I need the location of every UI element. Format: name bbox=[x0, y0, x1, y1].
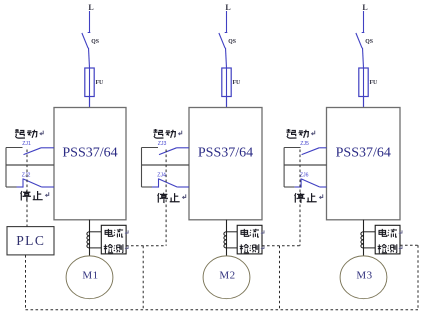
wire: common middle rail to U2 (column 2) bbox=[142, 164, 190, 166]
wire: U1 output to motor M1 bbox=[89, 220, 91, 256]
svg-text:PSS37/64: PSS37/64 bbox=[62, 146, 117, 161]
wire: U2 output to motor M2 bbox=[226, 220, 228, 256]
current detection box 电流检测 (column 2) bbox=[237, 225, 262, 254]
switch QS1 (knife switch blade) bbox=[82, 33, 90, 49]
svg-text:QS: QS bbox=[91, 39, 99, 45]
wire: stop contact lower lead (column 3) bbox=[284, 186, 295, 188]
soft starter U1 PSS37/64 (box) bbox=[54, 108, 126, 220]
current detection box 电流检测 (column 3) bbox=[375, 225, 400, 254]
svg-text:ZJ2: ZJ2 bbox=[22, 172, 31, 178]
dashed control link: column 3 contacts down bbox=[299, 150, 301, 246]
svg-text:ZJ1: ZJ1 bbox=[22, 141, 31, 147]
wire: fuse FU3 to soft starter U3 bbox=[363, 97, 365, 108]
label 电流 (current, column 3) bbox=[379, 229, 402, 238]
wire: U3 output to motor M3 bbox=[363, 220, 365, 256]
svg-text:ZJ4: ZJ4 bbox=[157, 172, 166, 178]
current transformer coil (column 1) bbox=[87, 232, 90, 248]
wire: start contact upper lead (column 2) bbox=[142, 147, 159, 149]
motor M2 (circle) bbox=[203, 256, 250, 299]
svg-text:FU: FU bbox=[370, 80, 379, 86]
fuse FU1 (rectangle with wire through) bbox=[85, 68, 94, 97]
svg-text:M2: M2 bbox=[219, 269, 235, 281]
svg-text:PSS37/64: PSS37/64 bbox=[198, 146, 253, 161]
label 检测 (detect, column 3) bbox=[378, 244, 402, 253]
dashed bottom signal bus bbox=[26, 309, 419, 311]
start push-button contact ZJ3 (NO, 起动) bbox=[159, 148, 189, 155]
svg-text:L: L bbox=[225, 3, 230, 12]
dashed control link: PLC output down to bottom bus bbox=[25, 255, 27, 310]
svg-text:PSS37/64: PSS37/64 bbox=[336, 146, 391, 161]
svg-text:L: L bbox=[88, 3, 93, 12]
start push-button contact ZJ1 (NO, 起动) bbox=[24, 148, 55, 155]
label 电流 (current, column 2) bbox=[241, 229, 264, 238]
wire: stop contact lower lead (column 2) bbox=[142, 186, 153, 188]
label 检测 (detect, column 1) bbox=[104, 244, 128, 253]
svg-text:ZJ3: ZJ3 bbox=[158, 141, 167, 147]
label 停止 (stop, column 3) bbox=[295, 193, 323, 203]
wire: start contact upper lead (column 1) bbox=[6, 147, 23, 149]
label 电流 (current, column 1) bbox=[105, 229, 128, 238]
wire: CT lower tap to current-detect box (column 3) bbox=[364, 247, 376, 249]
wire: switch QS1 to fuse FU1 bbox=[89, 48, 90, 68]
svg-text:QS: QS bbox=[228, 39, 236, 45]
motor M3 (circle) bbox=[340, 256, 387, 299]
label 起动 (start, column 1) bbox=[15, 129, 43, 138]
wire: start contact upper lead (column 3) bbox=[284, 147, 301, 149]
stop push-button contact ZJ4 (NC, 停止) bbox=[152, 178, 189, 187]
wire: switch QS3 to fuse FU3 bbox=[363, 48, 364, 68]
dashed control link: detect box 3 output (horizontal) bbox=[400, 244, 418, 246]
wire: stop contact lower lead (column 1) bbox=[6, 186, 17, 188]
svg-text:QS: QS bbox=[365, 39, 373, 45]
dashed control link: detect box 1 output (horizontal) bbox=[126, 245, 166, 247]
PLC controller box bbox=[7, 227, 54, 255]
svg-text:PLC: PLC bbox=[16, 233, 45, 248]
wire: common middle rail to U3 (column 3) bbox=[284, 164, 326, 166]
svg-text:ZJ6: ZJ6 bbox=[300, 172, 309, 178]
svg-text:M3: M3 bbox=[356, 269, 372, 281]
wire: CT lower tap to current-detect box (column 2) bbox=[227, 247, 238, 249]
current transformer coil (column 2) bbox=[224, 232, 227, 248]
stop push-button contact ZJ6 (NC, 停止) bbox=[295, 178, 327, 187]
wire: CT upper tap to current-detect box (column 2) bbox=[227, 231, 238, 233]
wire: common middle rail to U1 (column 1) bbox=[6, 164, 54, 166]
fuse FU2 (rectangle with wire through) bbox=[222, 68, 231, 97]
label 检测 (detect, column 2) bbox=[240, 244, 264, 253]
soft starter U2 PSS37/64 (box) bbox=[189, 108, 262, 220]
switch QS3 (knife switch blade) bbox=[356, 33, 364, 49]
wire: L to switch QS3 bbox=[363, 11, 365, 33]
switch QS2 (knife switch blade) bbox=[219, 33, 227, 49]
current detection box 电流检测 (column 1) bbox=[101, 225, 126, 254]
svg-text:L: L bbox=[362, 3, 367, 12]
wire: control loop left rail (column 2) bbox=[141, 148, 143, 188]
dashed control link: branch down to bus (column 2) bbox=[279, 246, 281, 310]
wire: L to switch QS2 bbox=[226, 11, 228, 33]
stop push-button contact ZJ2 (NC, 停止) bbox=[17, 178, 55, 187]
wire: control loop left rail (column 3) bbox=[283, 148, 285, 188]
wire: CT upper tap to current-detect box (column 3) bbox=[364, 231, 376, 233]
svg-text:ZJ5: ZJ5 bbox=[300, 141, 309, 147]
current transformer coil (column 3) bbox=[361, 232, 364, 248]
wire: switch QS2 to fuse FU2 bbox=[226, 48, 227, 68]
soft starter U3 PSS37/64 (box) bbox=[327, 108, 401, 220]
motor M1 (circle) bbox=[66, 256, 113, 299]
wire: fuse FU1 to soft starter U1 bbox=[89, 97, 91, 108]
fuse FU3 (rectangle with wire through) bbox=[359, 68, 368, 97]
wire: control loop left rail (column 1) bbox=[5, 148, 7, 188]
svg-text:M1: M1 bbox=[82, 269, 98, 281]
wire: CT lower tap to current-detect box (column 1) bbox=[90, 247, 102, 249]
dashed control link: branch down to bus (column 1) bbox=[142, 246, 144, 310]
label 起动 (start, column 3) bbox=[286, 129, 314, 138]
label 停止 (stop, column 1) bbox=[21, 191, 49, 201]
dashed control link: right edge down to bus (column 3) bbox=[417, 245, 419, 310]
label 起动 (start, column 2) bbox=[153, 129, 181, 138]
svg-text:FU: FU bbox=[96, 80, 105, 86]
wire: L to switch QS1 bbox=[89, 11, 91, 33]
label 停止 (stop, column 2) bbox=[158, 193, 186, 203]
dashed control link: column 2 contacts down bbox=[165, 150, 167, 246]
start push-button contact ZJ5 (NO, 起动) bbox=[302, 148, 327, 155]
wire: CT upper tap to current-detect box (column 1) bbox=[90, 231, 102, 233]
wire: fuse FU2 to soft starter U2 bbox=[226, 97, 228, 108]
svg-text:FU: FU bbox=[233, 80, 242, 86]
dashed control link: detect box 2 output (horizontal) bbox=[262, 245, 300, 247]
dashed control link: column 1 contacts to PLC input bbox=[26, 150, 28, 227]
